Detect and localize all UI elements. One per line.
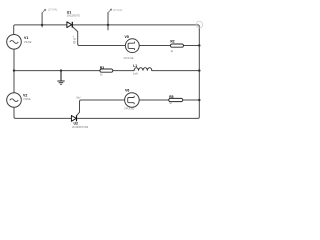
wire V6 to R5	[139, 99, 168, 101]
svg-text:R5: R5	[169, 95, 173, 99]
voltage source V2	[7, 93, 31, 108]
svg-text:U2: U2	[74, 121, 79, 125]
net flag probe 1	[42, 7, 57, 13]
node junction dot (199.3,45.5)	[198, 44, 200, 46]
wire bottom from U2 to V2	[14, 107, 71, 118]
svg-text:V5: V5	[125, 35, 129, 39]
node junction dot (108,25)	[107, 24, 109, 26]
wire net flag stub 2	[107, 13, 109, 30]
svg-text:R2: R2	[170, 40, 174, 44]
wire mid row L1 to right rail	[152, 70, 200, 72]
voltage source V6	[124, 89, 139, 111]
net flag probe 2	[108, 8, 122, 13]
node junction dot (14,70.6)	[13, 69, 15, 71]
svg-text:VSINE: VSINE	[24, 40, 32, 44]
wire mid row left segment to R3	[14, 70, 100, 72]
svg-text:L1: L1	[133, 64, 137, 68]
node junction dot (42.1,25)	[41, 24, 43, 26]
svg-text:VSINE: VSINE	[23, 97, 31, 101]
wire R2 to right rail	[184, 45, 200, 47]
wire net flag stub 1	[41, 13, 43, 27]
svg-text:2N1595/TO92: 2N1595/TO92	[72, 125, 89, 129]
svg-text:VPULSE: VPULSE	[124, 107, 135, 111]
wire right rail	[196, 30, 199, 118]
voltage source V1	[7, 35, 32, 50]
node junction dot (199.3,100)	[198, 99, 200, 101]
svg-text:2N1595/TO: 2N1595/TO	[67, 14, 80, 18]
voltage source V5	[123, 35, 139, 60]
svg-text:Θu˟: Θu˟	[71, 35, 76, 43]
wire mid row R3 to L1	[113, 70, 134, 72]
svg-text:Θu°: Θu°	[76, 95, 82, 99]
wire U1 gate down and right to V5	[72, 26, 125, 45]
wire V2 top to mid junction	[13, 71, 15, 93]
wire V6 row from U2 gate corner to V6	[80, 100, 125, 112]
thyristor U1	[67, 10, 80, 27]
thyristor U2	[71, 116, 88, 129]
node junction dot (199.3,70.6)	[198, 69, 200, 71]
wire V1 bottom down to mid junction	[13, 49, 15, 71]
inductor L1	[133, 64, 152, 76]
svg-text:(17V/A): (17V/A)	[113, 8, 123, 12]
ground	[57, 71, 64, 85]
svg-text:VPULSE: VPULSE	[123, 56, 134, 60]
resistor R5	[169, 95, 183, 105]
wire top from U1 cathode to right rail corner	[73, 25, 200, 30]
node junction dot ground tap (61,70.6)	[60, 69, 62, 71]
resistor R2	[170, 40, 183, 54]
svg-text:V2: V2	[23, 93, 27, 97]
svg-text:(17V/A): (17V/A)	[48, 7, 58, 11]
wire R5 to right rail	[183, 99, 200, 101]
probe circle top-right corner	[196, 21, 203, 28]
svg-text:V1: V1	[24, 36, 28, 40]
wire V5 to R2	[139, 45, 170, 47]
wire U2 gate diagonal	[76, 112, 79, 116]
wire top-left from V1 up and right to U1	[14, 25, 67, 35]
resistor R3	[100, 66, 113, 76]
svg-text:1mH: 1mH	[133, 73, 138, 76]
svg-text:R3: R3	[100, 66, 104, 70]
svg-text:V6: V6	[125, 89, 129, 93]
wire bottom from right rail to U2	[77, 117, 196, 119]
